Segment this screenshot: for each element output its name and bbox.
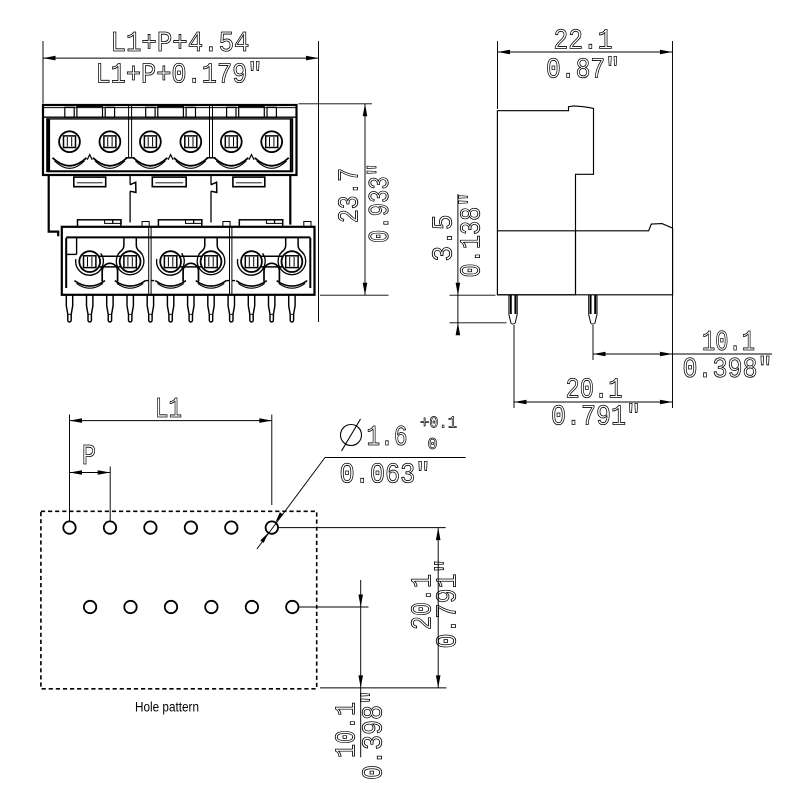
front view: middle foot tab 3 [233,177,265,187]
svg-text:0.791": 0.791" [551,401,641,434]
front view: bottom row pair 3 connector lines [261,255,283,257]
hole pattern: row1 hole 3 [144,521,156,533]
hole pattern: dashed outline [41,511,317,689]
svg-text:0.398": 0.398" [358,690,391,780]
front view: top band narrow tab 4 [186,107,195,117]
front view: top row scallop 4 [174,158,208,166]
side view: flange profile [497,224,672,295]
dimension 22.1 left arrow [498,50,511,55]
hole pattern: row2 hole 6 [286,601,298,613]
dimension L1+P+4.54 line [43,57,319,59]
front view: bottom row terminal square 4 [205,256,217,268]
front view: scallop cusp notch [87,155,92,160]
front view: top row scallop 2 [93,158,127,166]
front view: top row terminal square 3 [144,136,156,148]
dimension 3.5 extension lines [450,294,496,296]
front view: bottom row left notch [76,237,78,254]
front view: bottom row group divider 2 [229,227,231,295]
hole pattern: row2 hole 2 [124,601,136,613]
dimension P right arrow [98,470,111,475]
front view: top band narrow tab 3 [146,107,155,117]
front view: top row terminal circle 6 [261,131,282,152]
front view: bottom row terminal square 1 [84,256,96,268]
front view: top band wide tab 1 [77,106,103,117]
front view: top row scallop plateau [126,157,135,159]
side view: inner line [575,231,577,295]
dimension 23.7 bottom arrow [363,283,368,296]
front view: pin 9 [228,295,234,322]
front view: pin 1 [66,295,72,322]
front view: bottom row outer body [62,227,315,295]
hole diameter lower arrow [260,533,268,543]
dimension 20.1 (hole pattern) line [437,528,439,688]
svg-text:23.7: 23.7 [334,168,367,223]
front view: top row scallop 6 [255,158,289,166]
svg-text:0.791": 0.791" [432,559,465,649]
hole pattern: row2 hole 5 [246,601,258,613]
dimension 10.1 hp upper arrow [358,595,363,608]
front view: bottom row scallop 6 [277,281,308,286]
dimension 3.5 upper arrow (down) [456,283,461,296]
dimension L1 left arrow [70,418,83,423]
hole pattern: row1 hole 1 [63,521,75,533]
front view: bottom row pair 1 arch [102,263,117,281]
hole pattern: row1 hole 2 [104,521,116,533]
dimension L1+P+4.54 right arrow [306,56,319,61]
front view: bottom band tabs group 3 [239,220,282,227]
dimension L1 right arrow [259,418,272,423]
hole pattern: row2 hole 3 [165,601,177,613]
front view: top band wide tab 3 [239,106,265,117]
dimension 10.1 (hole pattern) extension line [299,606,369,608]
front view: bottom row stem over circle 2 [118,237,124,254]
front view: top row top band line [43,107,297,109]
front view: bottom row terminal square 2 [124,256,136,268]
front view: bottom row terminal square 5 [245,256,257,268]
dimension 23.7 line [364,104,366,295]
front view: middle section left profile [49,175,59,236]
front view: pin 3 [107,295,113,322]
front view: bottom row pair 3 outer contours [237,253,265,275]
front view: bottom band tabs group 2 [158,220,201,227]
front view: top row inner housing [47,119,293,171]
front view: top row terminal circle 1 [59,131,80,152]
front view: top row inner right wall [290,120,292,172]
front view: scallop cusp notch [168,155,173,160]
dimension 20.1 hp top arrow [436,528,441,541]
dimension 10.1 extension line [592,325,594,360]
front view: bottom row group divider 1 [148,227,150,295]
svg-text:P: P [82,440,96,473]
dimension 20.1 line [514,401,673,403]
hole pattern: row1 hole 6 [266,521,278,533]
dimension 10.1 (hole pattern) line [360,580,362,757]
front view: bottom row terminal circle 4 [201,251,222,272]
front view: middle foot tab 1 [74,177,106,187]
front view: bottom row scallop 1 [74,281,105,286]
front view: top row group divider 2 [209,105,211,158]
dimension L1 line [70,420,272,422]
front view: bottom row pair 3 arch [264,263,279,281]
side view: pin 2 [589,295,597,324]
diameter symbol [341,425,362,446]
front view: bottom row inner right wall [309,238,311,288]
front view: bottom row scallop 5 [236,281,267,286]
front view: top row terminal square 2 [104,136,116,148]
front view: bottom row terminal square 3 [164,256,176,268]
front view: pin 12 [289,295,295,322]
svg-text:L1+P+0.179": L1+P+0.179" [96,59,263,92]
front view: bottom row pair 2 connector lines [180,255,202,257]
front view: pin 8 [208,295,214,322]
dimension 20.1 (hole pattern) extension lines [278,527,446,529]
front view: bottom row pair 2 arch [183,263,198,281]
svg-text:0.933": 0.933" [364,163,397,243]
front view: top row terminal square 6 [266,136,278,148]
svg-text:Hole pattern: Hole pattern [135,700,199,715]
front view: middle divider with latch 1 [129,175,131,185]
front view: pin 11 [269,295,275,322]
front view: bottom row pair 2 outer contours [157,253,185,275]
front view: top row scallop 5 [214,158,248,166]
front view: top band narrow tab 2 [105,107,114,117]
dimension 10.1 hp lower arrow [358,675,363,688]
front view: top row scallop 3 [133,158,167,166]
front view: top row terminal circle 4 [180,131,201,152]
front view: top row group divider 1 [128,105,130,158]
front view: bottom scallop plateau [226,280,229,282]
front view: top band narrow tab 1 [65,107,74,117]
front view: middle foot tab 2 [152,177,186,187]
dimension 22.1 right arrow [660,50,673,55]
dimension 3.5 line [457,194,459,332]
dimension 20.1 right arrow [660,400,673,405]
front view: bottom row pair 1 outer contours [76,253,104,275]
front view: bottom row stem over circle 6 [280,237,286,254]
svg-text:L1: L1 [155,393,182,426]
svg-text:0.138": 0.138" [456,193,489,278]
front view: pin 4 [127,295,133,322]
dimension P line [70,472,111,474]
front view: bottom row terminal circle 2 [120,251,141,272]
front view: top row terminal square 1 [64,136,76,148]
dimension 3.5 lower arrow (up) [456,323,461,336]
hole diameter leader line [257,458,325,550]
hole pattern: row2 hole 1 [84,601,96,613]
hole diameter upper arrow [275,512,283,522]
front view: top row terminal circle 3 [140,131,161,152]
dimension 23.7 top arrow [363,104,368,117]
dimension L1+P+4.54 extension lines [42,41,44,104]
hole pattern: row1 hole 4 [185,521,197,533]
front view: scallop cusp notch [249,155,254,160]
front view: top row outer body [43,105,297,175]
front view: bottom row stem over circle 4 [199,237,205,254]
front view: top row terminal circle 5 [221,131,242,152]
front view: bottom row inner top line [66,236,310,238]
front view: top band wide tab 2 [158,106,184,117]
front view: pin 5 [147,295,153,322]
svg-text:+0.1: +0.1 [420,415,457,434]
side view: pin 1 [509,295,517,324]
front view: top row inner left wall [47,120,50,172]
front view: bottom row scallop 3 [155,281,186,286]
dimension 22.1 line [498,51,673,53]
dimension 23.7 extension lines [299,103,373,105]
hole pattern: row1 hole 5 [225,521,237,533]
svg-text:1.6: 1.6 [367,421,408,454]
front view: pin 10 [248,295,254,322]
front view: bottom row inner left wall [65,238,67,288]
dimension 20.1 left arrow [514,400,527,405]
dimension 10.1 right arrow [660,352,673,357]
dimension 10.1 line [593,353,772,355]
svg-text:0.398": 0.398" [683,353,773,386]
dimension 20.1 hp bottom arrow [436,675,441,688]
front view: top band narrow tab 5 [227,107,236,117]
front view: middle divider with latch 2 [210,175,212,185]
front view: bottom row terminal circle 3 [160,251,181,272]
svg-text:0.063": 0.063" [340,459,431,492]
side view: body outline [497,106,593,295]
front view: top row terminal square 4 [185,136,197,148]
front view: bottom band tabs group 1 [78,220,121,227]
svg-text:L1+P+4.54: L1+P+4.54 [111,27,250,60]
svg-text:0: 0 [428,436,438,455]
dimension 22.1 extension lines [497,41,499,109]
front view: bottom row pair 1 connector lines [99,255,121,257]
front view: pin 2 [87,295,93,322]
svg-text:22.1: 22.1 [554,24,613,57]
svg-text:0.87": 0.87" [546,54,620,87]
front view: bottom row terminal circle 6 [282,251,303,272]
front view: bottom row terminal circle 1 [79,251,100,272]
front view: bottom row terminal circle 5 [241,251,262,272]
front view: pin 7 [188,295,194,322]
hole pattern: row2 hole 4 [205,601,217,613]
front view: bottom row scallop 2 [115,281,146,286]
front view: top row inner bottom line [47,170,293,172]
front view: top row scallop 1 [53,158,87,166]
dimension 20.1 extension line [513,325,515,408]
front view: bottom row scallop 4 [196,281,227,286]
front view: top row scallop plateau [207,157,216,159]
front view: middle section right profile [289,175,291,225]
dimension 10.1 left arrow [593,352,606,357]
front view: bottom scallop plateau [146,280,149,282]
dimension L1 extension lines [69,415,71,521]
dimension L1+P+4.54 left arrow [43,56,56,61]
front view: bottom row terminal square 6 [286,256,298,268]
dimension P left arrow [70,470,83,475]
front view: pin 6 [167,295,173,322]
front view: top row terminal square 5 [225,136,237,148]
dimension P extension line [109,467,111,521]
front view: top row terminal circle 2 [100,131,121,152]
front view: top band narrow tab 6 [267,107,276,117]
